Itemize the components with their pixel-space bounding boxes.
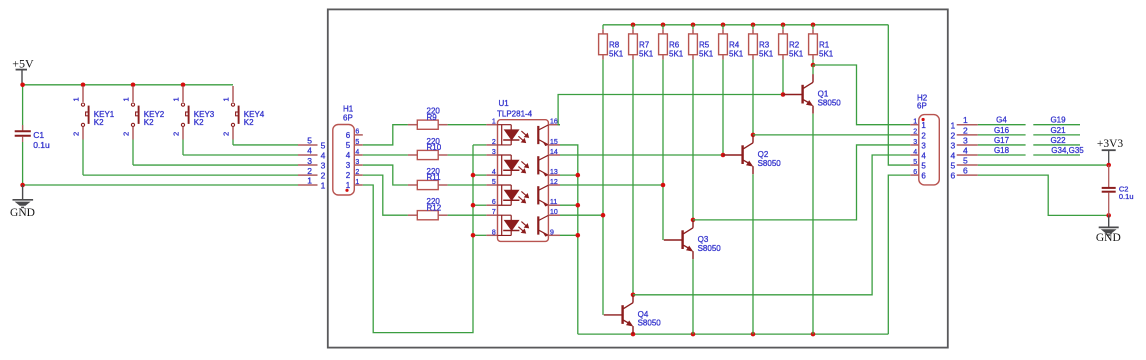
svg-text:9: 9 xyxy=(550,229,554,236)
H1 pin1 marker xyxy=(345,189,348,192)
switch KEY4 xyxy=(232,86,234,102)
capacitor C1 xyxy=(22,125,24,130)
wire H1 pin1 to LED cathodes xyxy=(363,185,473,333)
svg-text:2: 2 xyxy=(921,131,926,140)
svg-text:5K1: 5K1 xyxy=(609,49,624,58)
wire KEY1 to H1 port xyxy=(82,140,84,176)
wire +3V3 rail to H2 pin5 xyxy=(888,25,910,165)
svg-text:R12: R12 xyxy=(427,203,442,212)
svg-text:5: 5 xyxy=(321,141,326,151)
svg-text:G22: G22 xyxy=(1050,136,1066,145)
svg-text:4: 4 xyxy=(321,151,326,161)
svg-text:1: 1 xyxy=(921,121,926,130)
wire KEY3 to H1 port xyxy=(182,140,184,156)
svg-text:4: 4 xyxy=(355,149,359,156)
svg-text:2: 2 xyxy=(963,125,968,135)
svg-text:G18: G18 xyxy=(994,146,1010,155)
U1 light arrows channel 4 xyxy=(521,222,528,228)
svg-text:6P: 6P xyxy=(343,113,353,122)
svg-text:4: 4 xyxy=(913,149,917,156)
svg-text:G17: G17 xyxy=(994,136,1010,145)
svg-text:3: 3 xyxy=(321,161,326,171)
U1 light arrows channel 3 xyxy=(521,191,528,197)
capacitor C2 xyxy=(1108,165,1110,187)
svg-text:3: 3 xyxy=(921,141,926,150)
svg-text:2: 2 xyxy=(950,131,955,141)
wire Q3 emitter to rail xyxy=(692,259,694,334)
port 6 right xyxy=(957,174,978,176)
U1 pin 8 xyxy=(486,234,497,236)
svg-text:2: 2 xyxy=(221,132,230,136)
resistor R6 5K1 xyxy=(662,25,664,29)
U1 pin 10 xyxy=(548,214,560,216)
wire Q4 node to H2 pin4 xyxy=(633,155,910,295)
U1 pin 5 xyxy=(486,184,497,186)
svg-text:5: 5 xyxy=(913,159,917,166)
svg-text:TLP281-4: TLP281-4 xyxy=(497,109,533,118)
wire net G17 xyxy=(978,144,1026,146)
svg-text:2: 2 xyxy=(171,132,180,136)
U1 light arrows channel 1 xyxy=(521,131,528,137)
svg-text:1: 1 xyxy=(963,115,968,125)
svg-text:2: 2 xyxy=(121,132,130,136)
U1 phototransistor channel 2 xyxy=(538,155,548,176)
wire net G34,G35 xyxy=(1033,154,1080,156)
wire R1 column to Q1 collector xyxy=(812,60,814,65)
svg-text:4: 4 xyxy=(492,169,496,176)
svg-text:5K1: 5K1 xyxy=(819,49,834,58)
svg-text:14: 14 xyxy=(550,149,558,156)
H1 pin 6 xyxy=(354,134,363,136)
wire bottom emitter rail xyxy=(578,333,889,335)
svg-text:5: 5 xyxy=(950,161,955,171)
svg-text:R9: R9 xyxy=(427,113,438,122)
transistor Q4 S8050 xyxy=(621,305,623,324)
resistor R9 220 xyxy=(408,124,417,126)
svg-text:R8: R8 xyxy=(609,41,620,50)
wire U1 pin16 to Q1 base xyxy=(558,95,783,125)
svg-text:6: 6 xyxy=(950,171,955,181)
svg-text:15: 15 xyxy=(550,139,558,146)
H2 pin 5 xyxy=(910,164,919,166)
wire R7 column to Q4 collector xyxy=(632,60,634,295)
svg-text:2: 2 xyxy=(307,166,312,176)
wire emitter rail vertical xyxy=(560,145,578,334)
H1 pin 1 xyxy=(354,184,363,186)
port 5 right xyxy=(957,164,978,166)
svg-text:3: 3 xyxy=(307,156,312,166)
H1 pin 2 xyxy=(354,174,363,176)
svg-text:1: 1 xyxy=(346,181,351,190)
svg-text:2: 2 xyxy=(321,171,326,181)
svg-text:G21: G21 xyxy=(1050,126,1066,135)
resistor R11 220 xyxy=(408,184,417,186)
U1 light arrows channel 2 xyxy=(521,161,528,167)
svg-text:5K1: 5K1 xyxy=(669,49,684,58)
svg-text:0.1u: 0.1u xyxy=(1119,192,1134,201)
svg-text:R6: R6 xyxy=(669,41,680,50)
wire Q4 emitter to rail xyxy=(632,333,634,335)
wire Q2 emitter to rail xyxy=(752,174,754,334)
svg-text:G34,G35: G34,G35 xyxy=(1051,146,1084,155)
U1 pin 3 xyxy=(486,154,497,156)
svg-text:U1: U1 xyxy=(499,99,510,108)
U1 pin 7 xyxy=(486,214,497,216)
svg-text:S8050: S8050 xyxy=(698,244,722,253)
svg-text:16: 16 xyxy=(550,119,558,126)
svg-text:7: 7 xyxy=(492,209,496,216)
wire R8 column to Q4 base xyxy=(602,60,604,315)
wire R4 column to Q2 base xyxy=(722,60,724,155)
svg-text:3: 3 xyxy=(492,149,496,156)
resistor R4 5K1 xyxy=(722,25,724,29)
svg-text:12: 12 xyxy=(550,179,558,186)
wire net GND left xyxy=(22,142,24,185)
U1 LED channel 2 xyxy=(498,155,520,175)
wire net +5V rail xyxy=(23,84,233,86)
svg-text:+5V: +5V xyxy=(12,56,34,70)
port 5 left xyxy=(298,144,318,146)
svg-text:S8050: S8050 xyxy=(818,98,842,107)
svg-text:K2: K2 xyxy=(244,118,254,127)
wire R11 to U1 xyxy=(448,184,487,186)
U1 phototransistor channel 3 xyxy=(538,185,548,206)
transistor Q2 S8050 xyxy=(741,145,743,164)
svg-text:3: 3 xyxy=(355,159,359,166)
port 1 right xyxy=(957,124,978,126)
U1 pin 14 xyxy=(548,154,560,156)
wire KEY4 to H1 port xyxy=(232,140,234,145)
svg-text:R5: R5 xyxy=(699,41,710,50)
wire net G4 xyxy=(978,124,1026,126)
svg-text:5: 5 xyxy=(921,161,926,170)
port 4 left xyxy=(298,154,318,156)
wire net GND right xyxy=(978,175,1109,215)
svg-text:5: 5 xyxy=(346,141,351,150)
wire net G18 xyxy=(978,154,1026,156)
svg-text:6P: 6P xyxy=(917,101,927,110)
H2 pin 2 xyxy=(910,134,919,136)
svg-text:G19: G19 xyxy=(1050,116,1066,125)
svg-text:S8050: S8050 xyxy=(638,319,662,328)
U1 pin 16 xyxy=(548,124,560,126)
svg-text:6: 6 xyxy=(921,172,926,181)
svg-text:5K1: 5K1 xyxy=(699,49,714,58)
svg-text:1: 1 xyxy=(307,176,312,186)
H1 pin 3 xyxy=(354,164,363,166)
wire Q4 collector node xyxy=(631,293,636,298)
wire net G22 xyxy=(1033,144,1080,146)
wire H1 pin4 to R10 xyxy=(363,154,408,156)
wire R5 column to Q3 collector xyxy=(692,60,694,220)
transistor Q1 S8050 xyxy=(801,85,803,104)
svg-text:4: 4 xyxy=(307,146,312,156)
svg-text:R10: R10 xyxy=(427,143,442,152)
svg-text:4: 4 xyxy=(921,151,926,160)
svg-text:3: 3 xyxy=(913,139,917,146)
svg-text:GND: GND xyxy=(1096,232,1121,244)
svg-text:2: 2 xyxy=(355,169,359,176)
port 2 right xyxy=(957,134,978,136)
port 1 left xyxy=(298,184,318,186)
H2 pin 6 xyxy=(910,174,919,176)
H2 pin 3 xyxy=(910,144,919,146)
wire H1 pin2 to R12 xyxy=(363,175,408,215)
svg-text:1: 1 xyxy=(121,97,130,101)
svg-text:+3V3: +3V3 xyxy=(1097,138,1124,150)
wire U1 pin14 to Q2 base xyxy=(560,154,723,156)
wire Q1 collector node xyxy=(812,65,814,74)
resistor R5 5K1 xyxy=(692,25,694,29)
svg-text:8: 8 xyxy=(492,229,496,236)
wire R3 column to Q2 collector xyxy=(752,60,754,135)
svg-text:0.1u: 0.1u xyxy=(33,140,50,150)
svg-text:3: 3 xyxy=(950,141,955,151)
wire LED cathode bus xyxy=(472,145,474,235)
svg-text:R7: R7 xyxy=(639,41,650,50)
wire net +3V3 to C2 xyxy=(978,164,1109,166)
svg-text:H1: H1 xyxy=(343,104,354,113)
svg-text:5: 5 xyxy=(307,136,312,146)
connector H1 6P xyxy=(333,125,355,196)
U1 phototransistor channel 1 xyxy=(538,125,548,146)
wire net G21 xyxy=(1033,134,1080,136)
switch KEY1 xyxy=(82,86,84,102)
svg-text:6: 6 xyxy=(355,129,359,136)
resistor R10 220 xyxy=(408,154,417,156)
svg-text:11: 11 xyxy=(550,199,557,206)
svg-text:R1: R1 xyxy=(819,41,830,50)
svg-text:4: 4 xyxy=(963,146,968,156)
svg-text:10: 10 xyxy=(550,209,558,216)
switch KEY2 xyxy=(132,86,134,102)
U1 pin 6 xyxy=(486,204,497,206)
H2 pin1 marker xyxy=(922,118,925,121)
svg-text:4: 4 xyxy=(346,151,351,160)
svg-text:5K1: 5K1 xyxy=(639,49,654,58)
svg-text:5: 5 xyxy=(355,139,359,146)
svg-text:5K1: 5K1 xyxy=(759,49,774,58)
svg-text:6: 6 xyxy=(346,131,351,140)
wire U1 pin12 to Q3 base route xyxy=(560,184,663,186)
U1 pin 12 xyxy=(548,184,560,186)
transistor Q3 S8050 xyxy=(681,230,683,249)
sheet boundary box xyxy=(328,9,948,347)
svg-text:6: 6 xyxy=(963,166,968,176)
svg-text:1: 1 xyxy=(321,181,326,191)
svg-text:G4: G4 xyxy=(996,116,1007,125)
svg-text:2: 2 xyxy=(492,139,496,146)
ground GND left xyxy=(22,185,24,199)
svg-text:R2: R2 xyxy=(789,41,800,50)
svg-text:R11: R11 xyxy=(427,173,442,182)
U1 pin 1 xyxy=(486,124,497,126)
resistor R7 5K1 xyxy=(632,25,634,29)
port 2 left xyxy=(298,174,318,176)
resistor R12 220 xyxy=(408,214,417,216)
resistor R1 5K1 xyxy=(812,25,814,29)
wire H1 pin3 to R11 xyxy=(363,165,408,185)
H1 pin 4 xyxy=(354,154,363,156)
svg-text:R3: R3 xyxy=(759,41,770,50)
svg-text:5K1: 5K1 xyxy=(789,49,804,58)
svg-text:2: 2 xyxy=(71,132,80,136)
svg-text:R4: R4 xyxy=(729,41,740,50)
wire Q2 collector node xyxy=(751,133,756,138)
wire KEY2 to H1 port xyxy=(132,140,134,166)
U1 pin 11 xyxy=(548,204,560,206)
port 4 right xyxy=(957,154,978,156)
U1 pin 4 xyxy=(486,174,497,176)
wire Q3 collector node xyxy=(691,218,696,223)
wire Q2 node to H2 pin2 xyxy=(753,134,910,136)
svg-text:1: 1 xyxy=(355,179,359,186)
svg-text:2: 2 xyxy=(346,171,351,180)
wire net G16 xyxy=(978,134,1026,136)
svg-text:6: 6 xyxy=(913,169,917,176)
port 3 right xyxy=(957,144,978,146)
svg-text:3: 3 xyxy=(963,135,968,145)
svg-text:1: 1 xyxy=(71,97,80,101)
svg-text:4: 4 xyxy=(950,151,955,161)
svg-text:5: 5 xyxy=(492,179,496,186)
U1 pin 15 xyxy=(548,144,560,146)
wire Q1 emitter to rail xyxy=(812,114,814,334)
resistor R3 5K1 xyxy=(752,25,754,29)
svg-text:K2: K2 xyxy=(144,118,154,127)
wire R10 to U1 xyxy=(448,154,487,156)
wire R12 to U1 xyxy=(448,214,487,216)
svg-text:3: 3 xyxy=(346,161,351,170)
H1 pin 5 xyxy=(354,144,363,146)
wire net G19 xyxy=(1033,124,1080,126)
wire Q3 node to H2 pin3 xyxy=(693,145,910,220)
connector H2 6P xyxy=(919,115,940,185)
svg-text:1: 1 xyxy=(913,119,917,126)
U1 pin 9 xyxy=(548,234,560,236)
wire H1 pin5 to R9 xyxy=(363,125,408,145)
wire R6 column to Q3 base xyxy=(662,60,664,240)
U1 pin 2 xyxy=(486,144,497,146)
svg-text:K2: K2 xyxy=(194,118,204,127)
wire H2 pin6 to emitter rail xyxy=(888,175,910,334)
U1 pin 13 xyxy=(548,174,560,176)
U1 phototransistor channel 4 xyxy=(538,215,548,236)
resistor R2 5K1 xyxy=(782,25,784,29)
switch KEY3 xyxy=(182,86,184,102)
wire net +3V3 top rail xyxy=(603,24,888,26)
wire U1 pin10 to Q4 base route xyxy=(560,214,603,216)
port 3 left xyxy=(298,164,318,166)
U1 LED channel 3 xyxy=(498,185,520,205)
svg-text:1: 1 xyxy=(171,97,180,101)
svg-text:1: 1 xyxy=(492,119,496,126)
U1 LED channel 1 xyxy=(498,125,520,145)
resistor R8 5K1 xyxy=(602,25,604,29)
U1 LED channel 4 xyxy=(498,215,520,235)
H2 pin 1 xyxy=(910,124,919,126)
svg-text:13: 13 xyxy=(550,169,558,176)
svg-text:2: 2 xyxy=(913,129,917,136)
svg-text:6: 6 xyxy=(492,199,496,206)
svg-text:C1: C1 xyxy=(33,130,44,140)
svg-text:5K1: 5K1 xyxy=(729,49,744,58)
ground GND right xyxy=(1108,215,1110,227)
svg-text:1: 1 xyxy=(950,120,955,130)
svg-text:G16: G16 xyxy=(994,126,1010,135)
svg-text:1: 1 xyxy=(221,97,230,101)
wire Q1 node to H2 pin1 xyxy=(813,65,910,125)
wire R9 to U1 xyxy=(448,124,487,126)
wire R2 column to Q1 base xyxy=(782,60,784,95)
svg-text:5: 5 xyxy=(963,156,968,166)
svg-text:GND: GND xyxy=(10,207,35,219)
H2 pin 4 xyxy=(910,154,919,156)
svg-text:S8050: S8050 xyxy=(758,159,782,168)
svg-text:K2: K2 xyxy=(94,118,104,127)
